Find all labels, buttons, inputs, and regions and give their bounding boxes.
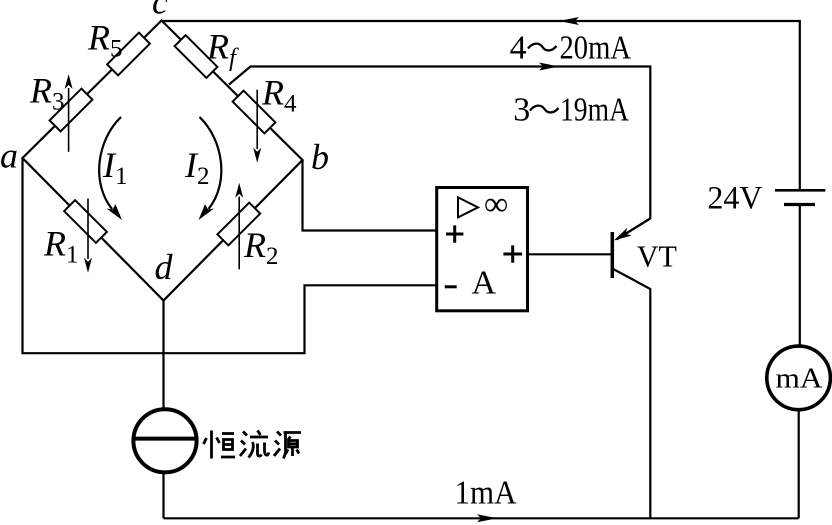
svg-text:1mA: 1mA: [455, 475, 517, 512]
svg-text:mA: mA: [776, 363, 823, 395]
svg-text:4: 4: [510, 30, 527, 67]
svg-text:∞: ∞: [484, 186, 508, 223]
svg-text:VT: VT: [637, 238, 677, 273]
svg-text:24V: 24V: [707, 181, 762, 217]
svg-text:19mA: 19mA: [560, 91, 629, 128]
svg-text:b: b: [311, 137, 329, 177]
svg-text:a: a: [0, 136, 18, 176]
svg-text:d: d: [155, 247, 174, 287]
svg-text:A: A: [472, 265, 497, 302]
svg-text:c: c: [152, 0, 168, 22]
svg-text:3: 3: [513, 91, 530, 128]
svg-text:20mA: 20mA: [560, 30, 632, 67]
